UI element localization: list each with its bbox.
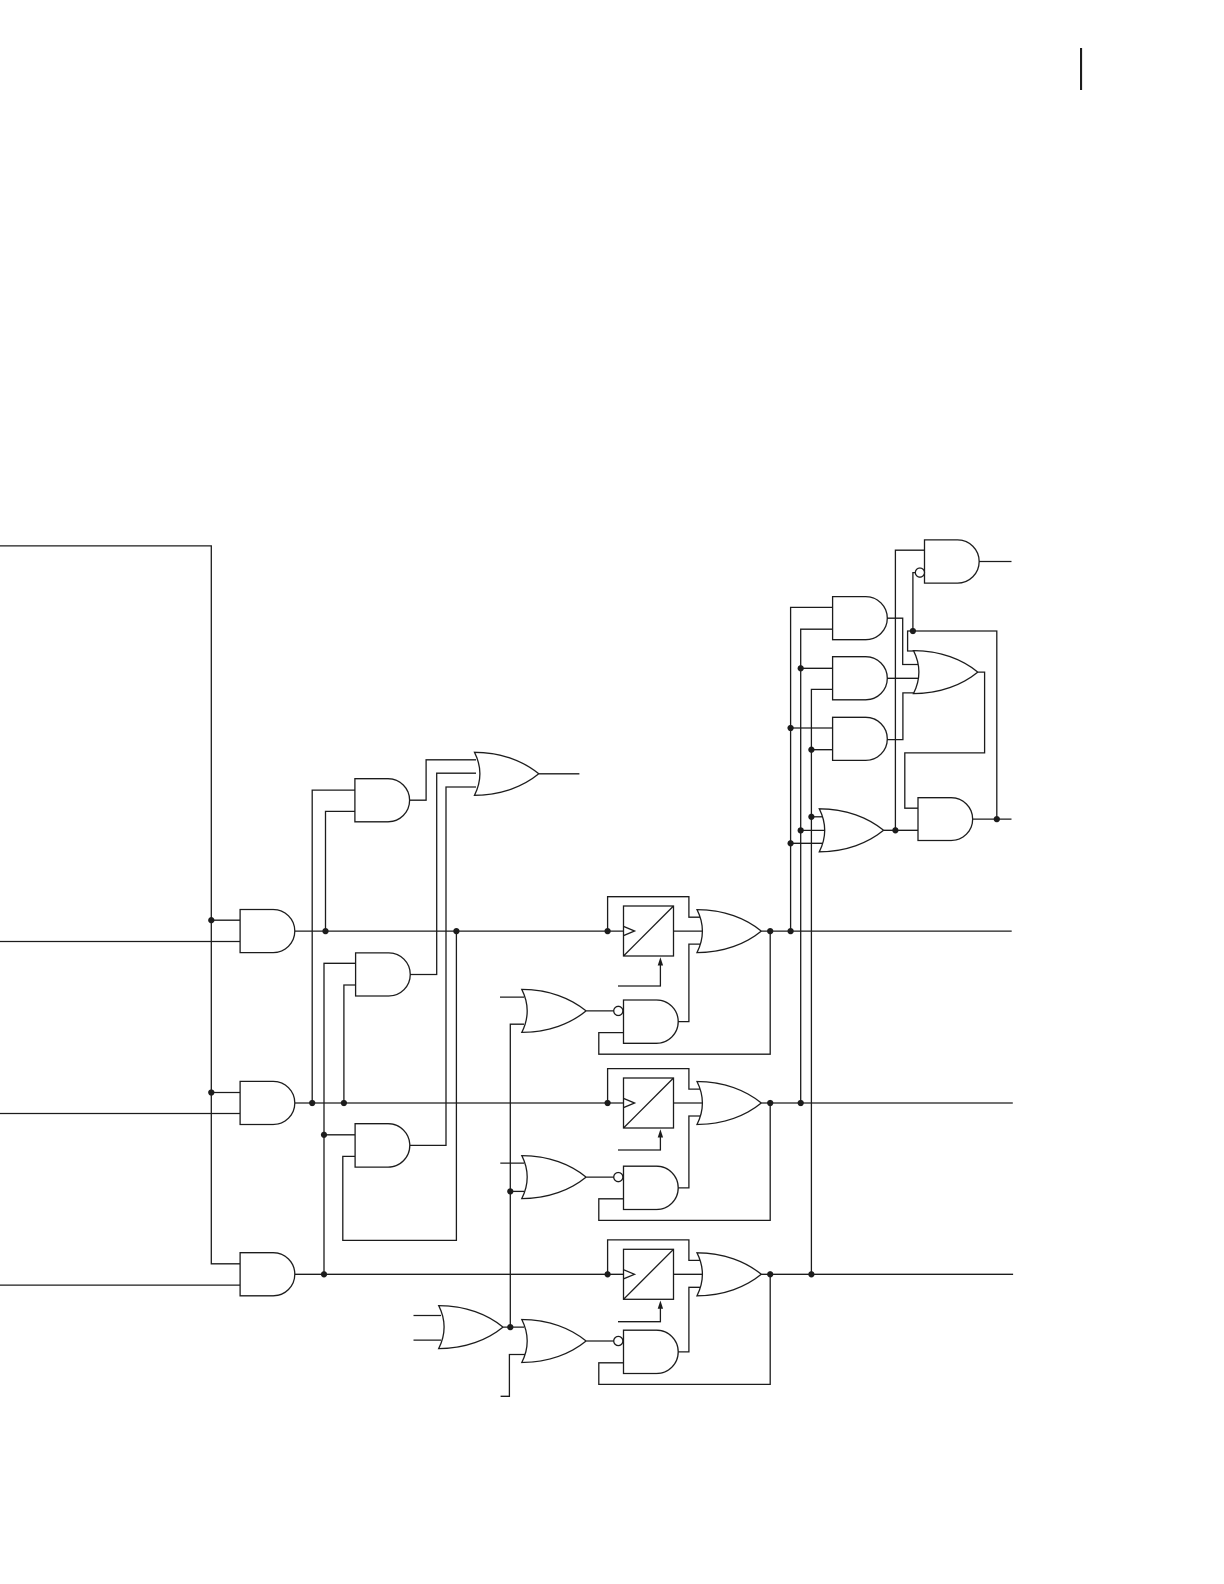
wire: Q2 up to AND G7 bottom input: [801, 629, 833, 1103]
wire: stub input to OR G22 top input: [414, 1315, 442, 1317]
node: junction Q3 to G6: [321, 1132, 327, 1138]
wire: Q3 up to AND G8 bottom input: [811, 689, 832, 1274]
wire: NAND N4 output: [979, 561, 1011, 563]
node: junction at OR G22 output: [507, 1324, 513, 1330]
node: Q2 tap for G5: [341, 1100, 347, 1106]
wire: FF1 output into OR gate: [674, 930, 704, 932]
node: junction at G9 bottom input: [808, 747, 814, 753]
wire: branch to OR G23 input 2: [801, 829, 826, 831]
wire: left input to AND G2 lower input: [0, 1113, 240, 1115]
wire: Q1 up to AND G4 bottom input: [326, 811, 355, 931]
wire: FF3 output into OR gate: [674, 1273, 704, 1275]
wire: left input to AND G3 lower input: [0, 1284, 240, 1286]
wire: feedback from output line to NAND lower input y=1103: [599, 1103, 770, 1220]
node: feedback tap y=1274.3: [767, 1271, 773, 1277]
node: Q2 tap for cluster: [798, 1100, 804, 1106]
wire: clock input with arrow into FF y=1103: [618, 1137, 660, 1151]
wire: branch to OR G23 input 3: [791, 842, 826, 844]
and-gate G3 (row 3 input AND): [240, 1253, 295, 1296]
and-gate G8 (cluster middle): [833, 657, 888, 700]
wire: row2 output line Q2: [761, 1102, 1013, 1104]
wire: NAND output up to OR bottom input y=931.1: [677, 944, 703, 1022]
nand-gate N2 (row 2 latch): [624, 1166, 679, 1209]
wire: branch to AND G2 top input: [211, 1092, 240, 1094]
wire: OR G19 output to NAND N1 bubble: [586, 1010, 614, 1012]
wire: stub input to OR G19 top input: [500, 996, 524, 998]
and-gate G6 (Q3*Q1): [355, 1124, 410, 1167]
wire: row3 output line Q3: [761, 1273, 1013, 1275]
wire: Q1 down and around to AND G6 bottom input: [343, 931, 457, 1240]
wire: row1 output line Q1: [761, 930, 1011, 932]
wire: AND G6 output to OR G15 input 3: [410, 787, 476, 1145]
wire: input bus from top-left down to AND G3 top input: [0, 546, 240, 1264]
wire: branch to AND G1 top input: [211, 919, 240, 921]
wire: OR G15 output: [539, 773, 580, 775]
wire: row1 AND output to flip-flop FF1: [295, 930, 624, 932]
node: junction at G8 top input: [798, 665, 804, 671]
tick mark (top right registration line): [1080, 48, 1082, 90]
node: FF input junction y=931.1: [604, 928, 610, 934]
and-gate G1 (row 1 input AND): [240, 910, 295, 953]
wire: stub input to OR G22 bottom input: [414, 1339, 442, 1341]
wire: Q1 up to AND G7 top input: [791, 607, 833, 931]
wire: AND G7 output to OR G24 input 2: [887, 618, 918, 664]
wire: OR G23 output to AND G10 bottom input: [884, 829, 918, 831]
wire: OR G20 output to NAND N2 bubble: [586, 1176, 614, 1178]
node: junction at G23 input 1: [808, 814, 814, 820]
node: junction on input bus (row 2): [208, 1089, 214, 1095]
wire: OR G22 output into OR G21 top input: [503, 1326, 524, 1328]
wire: stub input to OR G21 bottom input: [501, 1355, 526, 1397]
node: junction at G9 top input: [787, 725, 793, 731]
wire: branch to AND G8 top input: [801, 667, 833, 669]
wire: AND G9 output to OR G24 input 4: [887, 693, 918, 740]
wire: NAND output up to OR bottom input y=1103: [677, 1116, 703, 1188]
and-gate G5 (Q3*Q2): [356, 953, 411, 996]
or-gate G23 (cluster 3-input OR): [819, 809, 883, 852]
wire: branch to OR G23 input 1: [811, 816, 826, 818]
wire: NAND output up to OR bottom input y=1274.3: [677, 1287, 703, 1352]
wire: Q2 up to AND G5 bottom input: [344, 985, 356, 1103]
wire: row3 AND output to flip-flop FF3: [295, 1273, 624, 1275]
and-gate G10 (cluster output AND): [918, 798, 973, 841]
wire: NAND N4 bubble down to node line: [913, 573, 916, 631]
and-gate G9 (cluster bottom): [833, 717, 888, 760]
wire: FF2 output into OR gate: [674, 1102, 704, 1104]
or-gate G22 (row3 pre-OR): [439, 1306, 503, 1349]
wire: Q3 branch to AND G6 top input: [324, 1134, 355, 1136]
node: junction at G20 input: [507, 1188, 513, 1194]
wire: node line to OR G24 input 1 and down to output: [908, 631, 997, 819]
or-gate G21 (row3 set): [522, 1320, 586, 1363]
node: junction on input bus (row 1): [208, 917, 214, 923]
node: Q3 tap: [321, 1271, 327, 1277]
or-gate G15 (majority output): [475, 752, 539, 795]
node: junction on G23 output: [892, 827, 898, 833]
node: feedback tap y=1103: [767, 1100, 773, 1106]
flip-flop FF3 (row 3): [624, 1249, 674, 1299]
wire: FF D-input loop row y=1103: [608, 1069, 703, 1103]
node: Q1 tap for G6: [453, 928, 459, 934]
wire: FF D-input loop row y=931.1: [608, 897, 703, 931]
wire: left input to AND G1 lower input: [0, 941, 240, 943]
wire: Q2 up to AND G4 top input: [312, 790, 355, 1103]
wire: FF D-input loop row y=1274.3: [608, 1240, 703, 1274]
wire: branch to AND G9 bottom input: [811, 749, 832, 751]
or-gate G24 (cluster 4-input OR): [914, 651, 978, 694]
node: feedback tap y=931.1: [767, 928, 773, 934]
or-gate G16 (row 1 output OR): [697, 910, 761, 953]
node: junction bubble line: [910, 628, 916, 634]
wire: OR G23 output up to NAND N4 top input: [895, 550, 924, 830]
flip-flop FF2 (row 2): [624, 1078, 674, 1128]
wire: OR G21 output to NAND N3 bubble: [586, 1340, 614, 1342]
node: Q1 tap for G4: [322, 928, 328, 934]
and-gate G2 (row 2 input AND): [240, 1081, 295, 1124]
node: FF input junction y=1103: [604, 1100, 610, 1106]
nand-gate N4 (cluster NAND with inverted input): [925, 540, 980, 583]
node: junction at G23 input 2: [798, 827, 804, 833]
or-gate G19 (row1 set): [522, 989, 586, 1032]
nand-gate N3 (row 3 latch): [624, 1330, 679, 1373]
node: junction on G10 output: [994, 816, 1000, 822]
flip-flop FF1 (row 1): [624, 906, 674, 956]
wire: row2 AND output to flip-flop FF2: [295, 1102, 624, 1104]
wire: branch to OR G20 bottom input: [510, 1190, 524, 1192]
wire: Q3 up to AND G5 top input: [324, 963, 356, 1274]
node: junction at G23 input 3: [787, 840, 793, 846]
wire: stub input to OR G20 top input: [500, 1162, 524, 1164]
wire: AND G8 output to OR G24 input 3: [887, 677, 918, 679]
and-gate G4 (Q1*Q2): [355, 779, 410, 822]
wire: OR G22 output up to OR G19 bottom input: [510, 1024, 524, 1327]
node: FF input junction y=1274.3: [604, 1271, 610, 1277]
wire: feedback from output line to NAND lower input y=931.1: [599, 931, 770, 1054]
wire: AND G4 output to OR G15 input 1: [410, 760, 476, 800]
or-gate G20 (row2 set): [522, 1156, 586, 1199]
wire: OR G24 output around to AND G10 top input: [905, 672, 985, 808]
wire: branch to AND G9 top input: [791, 727, 833, 729]
and-gate G7 (cluster top): [833, 597, 888, 640]
node: Q1 tap for cluster: [787, 928, 793, 934]
wire: feedback from output line to NAND lower input y=1274.3: [599, 1274, 770, 1384]
wire: AND G10 output: [973, 818, 1012, 820]
node: Q3 tap for cluster: [808, 1271, 814, 1277]
node: Q2 tap for G4: [309, 1100, 315, 1106]
or-gate G18 (row 3 output OR): [697, 1253, 761, 1296]
wire: clock input with arrow into FF y=931.1: [618, 965, 660, 987]
nand-gate N1 (row 1 latch): [624, 1000, 679, 1043]
or-gate G17 (row 2 output OR): [697, 1082, 761, 1125]
wire: AND G5 output to OR G15 input 2: [410, 773, 476, 974]
wire: clock input with arrow into FF y=1274.3: [618, 1308, 660, 1322]
